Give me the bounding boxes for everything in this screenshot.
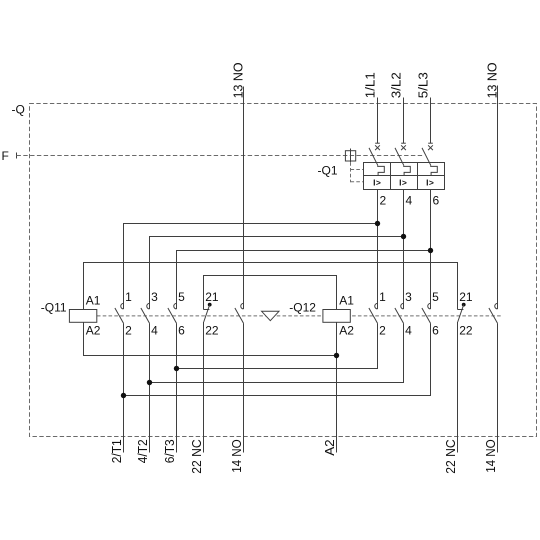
terminal label 2/T1 at x=123.5 (110, 439, 124, 463)
svg-text:22: 22 (459, 323, 473, 337)
terminal label 22 NC at x=203.5 (190, 439, 204, 474)
wire Q11 contact 4 down to bottom terminal (149, 323, 151, 452)
svg-text:5: 5 (178, 290, 185, 304)
svg-text:5/L3: 5/L3 (416, 72, 430, 98)
svg-text:3: 3 (405, 290, 412, 304)
label -Q12 (289, 300, 316, 314)
svg-text:3: 3 (151, 290, 158, 304)
terminal label 22 NC at x=457.5 (444, 439, 458, 474)
label A1 of Q11 (86, 294, 101, 308)
coil Q11 (69, 310, 96, 323)
label A1 of Q12 (339, 294, 354, 308)
terminal label 14 NO at x=243.5 (230, 439, 244, 473)
enclosure -Q dashed boundary box (30, 104, 537, 437)
pin 4 Q12 (405, 323, 412, 337)
overcurrent release I> pole 1 (373, 177, 381, 187)
terminal label 6/T3 at x=176.5 (163, 439, 177, 463)
svg-text:22 NC: 22 NC (444, 439, 458, 474)
svg-text:-Q: -Q (12, 102, 25, 116)
overcurrent release I> pole 3 (426, 177, 434, 187)
svg-text:A1: A1 (339, 294, 354, 308)
wire breaker output 2 down to Q12 main contact (377, 190, 379, 310)
junction A2 bus (334, 353, 339, 358)
mechanical interlock triangle between Q11 and Q12 (262, 311, 279, 320)
svg-text:1: 1 (379, 290, 386, 304)
contactor Q11 NC interlock contact 21-22 (204, 303, 212, 322)
svg-text:F: F (2, 149, 9, 163)
pin 5 Q12 (432, 290, 439, 304)
wire feed from breaker column 403.5 to Q11 main contact at x=149.5 (150, 237, 404, 310)
svg-text:4: 4 (406, 194, 413, 208)
contactor Q12 main contact 1-2 (369, 303, 378, 323)
svg-text:21: 21 (205, 290, 219, 304)
wire Q11 contact 6 down to bottom terminal (176, 323, 178, 452)
contactor Q12 main contact 5-6 (422, 303, 431, 323)
label F (2, 149, 9, 163)
pin 21 Q11 (205, 290, 219, 304)
wire Q12 output at x=430.5 crossover to T column x=123.5 (124, 323, 431, 395)
svg-text:21: 21 (459, 290, 473, 304)
wire Q12 22 down to bottom terminal 22 NC (457, 322, 459, 453)
junction at (430.5,250.5) (428, 248, 433, 253)
dashed mechanical linkage line of contactors (97, 315, 502, 317)
wire 5/L3 to breaker pole (430, 98, 432, 144)
pin 4 Q11 (151, 323, 158, 337)
svg-text:-Q11: -Q11 (41, 300, 67, 314)
svg-text:6: 6 (178, 323, 185, 337)
svg-text:5: 5 (432, 290, 439, 304)
wire feed from breaker column 377.5 to Q11 main contact at x=123.5 (124, 224, 378, 310)
circuit breaker Q1 body box with thermal/magnetic releases (364, 163, 445, 190)
svg-text:-Q1: -Q1 (318, 164, 338, 178)
pin 22 Q12 (459, 323, 473, 337)
contactor Q11 aux NO contact 13-14 (235, 303, 244, 323)
contactor Q12 main contact 3-4 (395, 303, 404, 323)
pin 1 Q12 (379, 290, 386, 304)
junction at (403.5,236.5) (401, 234, 406, 239)
contactor Q11 main contact 5-6 (168, 303, 177, 323)
pin 2 Q11 (125, 323, 132, 337)
wire Q12 14 down to bottom terminal 14 NO (497, 323, 499, 452)
svg-text:1/L1: 1/L1 (363, 72, 377, 98)
junction at (176.5,368.5) (174, 366, 179, 371)
svg-text:2: 2 (125, 323, 132, 337)
svg-text:4/T2: 4/T2 (136, 439, 150, 463)
label -Q11 (41, 300, 67, 314)
svg-text:A2: A2 (323, 439, 337, 456)
wire 1/L1 to breaker pole (377, 98, 379, 144)
label 13 NO (left) (231, 62, 245, 98)
wire feed from breaker column 430.5 to Q11 main contact at x=176.5 (177, 251, 431, 310)
svg-text:14 NO: 14 NO (230, 439, 244, 473)
overcurrent release I> pole 2 (399, 177, 407, 187)
svg-text:22 NC: 22 NC (190, 439, 204, 474)
wire Q11 contact 2 down to bottom terminal (123, 323, 125, 452)
wire A2 bus from Q11 coil to A2 junction (84, 323, 337, 356)
node 5/L3 supply terminal label (416, 72, 430, 98)
svg-text:6/T3: 6/T3 (163, 439, 177, 463)
pin 6 Q12 (432, 323, 439, 337)
terminal label 14 NO at x=497.5 (484, 439, 498, 473)
svg-text:2: 2 (379, 323, 386, 337)
label A2 of Q11 (86, 323, 101, 337)
terminal F tick (16, 153, 18, 159)
dashed actuator linkage of Q1 (351, 162, 364, 182)
pin 2 Q12 (379, 323, 386, 337)
label -Q1 (318, 164, 338, 178)
svg-text:14 NO: 14 NO (484, 439, 498, 473)
svg-text:22: 22 (205, 323, 219, 337)
wire Q11 14 down to bottom terminal 14 NO (243, 323, 245, 452)
wire F dashed trip line (17, 155, 425, 157)
wire 3/L2 to breaker pole (403, 98, 405, 144)
terminal label 4 of Q1 (406, 194, 413, 208)
pin 22 Q11 (205, 323, 219, 337)
label -Q (12, 102, 25, 116)
wire Q12 output at x=377.5 crossover to T column x=176.5 (177, 323, 378, 368)
wire breaker output 6 down to Q12 main contact (430, 190, 432, 310)
svg-text:A2: A2 (339, 323, 354, 337)
wire Q11 22 down to bottom terminal 22 NC (203, 322, 205, 453)
svg-text:I>: I> (426, 177, 434, 187)
wire breaker output 4 down to Q12 main contact (403, 190, 405, 310)
coil Q12 (323, 310, 350, 323)
node 1/L1 supply terminal label (363, 72, 377, 98)
junction at (377.5,223.5) (375, 221, 380, 226)
terminal label 6 of Q1 (433, 194, 440, 208)
svg-text:1: 1 (125, 290, 132, 304)
svg-text:3/L2: 3/L2 (389, 72, 403, 98)
contactor Q12 NC interlock contact 21-22 (458, 303, 466, 322)
svg-text:A1: A1 (86, 294, 101, 308)
contactor Q12 aux NO contact 13-14 (489, 303, 498, 323)
junction at (149.5,382.5) (147, 380, 152, 385)
pin 6 Q11 (178, 323, 185, 337)
terminal label A2 at x=336.5 (323, 439, 337, 456)
breaker Q1 pole 2 contact (fixed tick, x contact, blade, latch hook) (395, 143, 410, 175)
node 3/L2 supply terminal label (389, 72, 403, 98)
terminal label 2 of Q1 (380, 194, 387, 208)
pin 5 Q11 (178, 290, 185, 304)
pin 1 Q11 (125, 290, 132, 304)
label A2 of Q12 (339, 323, 354, 337)
svg-text:6: 6 (432, 323, 439, 337)
svg-text:4: 4 (405, 323, 412, 337)
label 13 NO (right) (485, 62, 499, 98)
wire 13 NO right down to Q12 aux contact (497, 86, 499, 310)
breaker Q1 pole 1 contact (fixed tick, x contact, blade, latch hook) (369, 143, 384, 175)
pin 21 Q12 (459, 290, 473, 304)
contactor Q11 main contact 1-2 (115, 303, 124, 323)
wire 13 NO left down to Q11 aux contact (243, 87, 245, 310)
svg-text:2: 2 (380, 194, 387, 208)
svg-text:I>: I> (399, 177, 407, 187)
svg-text:-Q12: -Q12 (289, 300, 316, 314)
contactor Q11 main contact 3-4 (141, 303, 150, 323)
pin 3 Q11 (151, 290, 158, 304)
terminal label 4/T2 at x=149.5 (136, 439, 150, 463)
wire Q12 coil A2 down to bottom terminal A2 (336, 323, 338, 453)
svg-text:2/T1: 2/T1 (110, 439, 124, 463)
svg-text:A2: A2 (86, 323, 101, 337)
svg-text:6: 6 (433, 194, 440, 208)
breaker manual actuator square (345, 149, 355, 163)
wire Q11 coil A1 up and across to Q12 NC contact 21 (84, 263, 458, 310)
svg-text:4: 4 (151, 323, 158, 337)
pin 3 Q12 (405, 290, 412, 304)
junction at (123.5,395.5) (121, 393, 126, 398)
breaker Q1 pole 3 contact (fixed tick, x contact, blade, latch hook) (422, 143, 437, 175)
wire Q11 NC contact 21 up and across to Q12 coil A1 (204, 276, 337, 310)
svg-text:I>: I> (373, 177, 381, 187)
wire Q12 output at x=403.5 crossover to T column x=149.5 (150, 323, 404, 382)
